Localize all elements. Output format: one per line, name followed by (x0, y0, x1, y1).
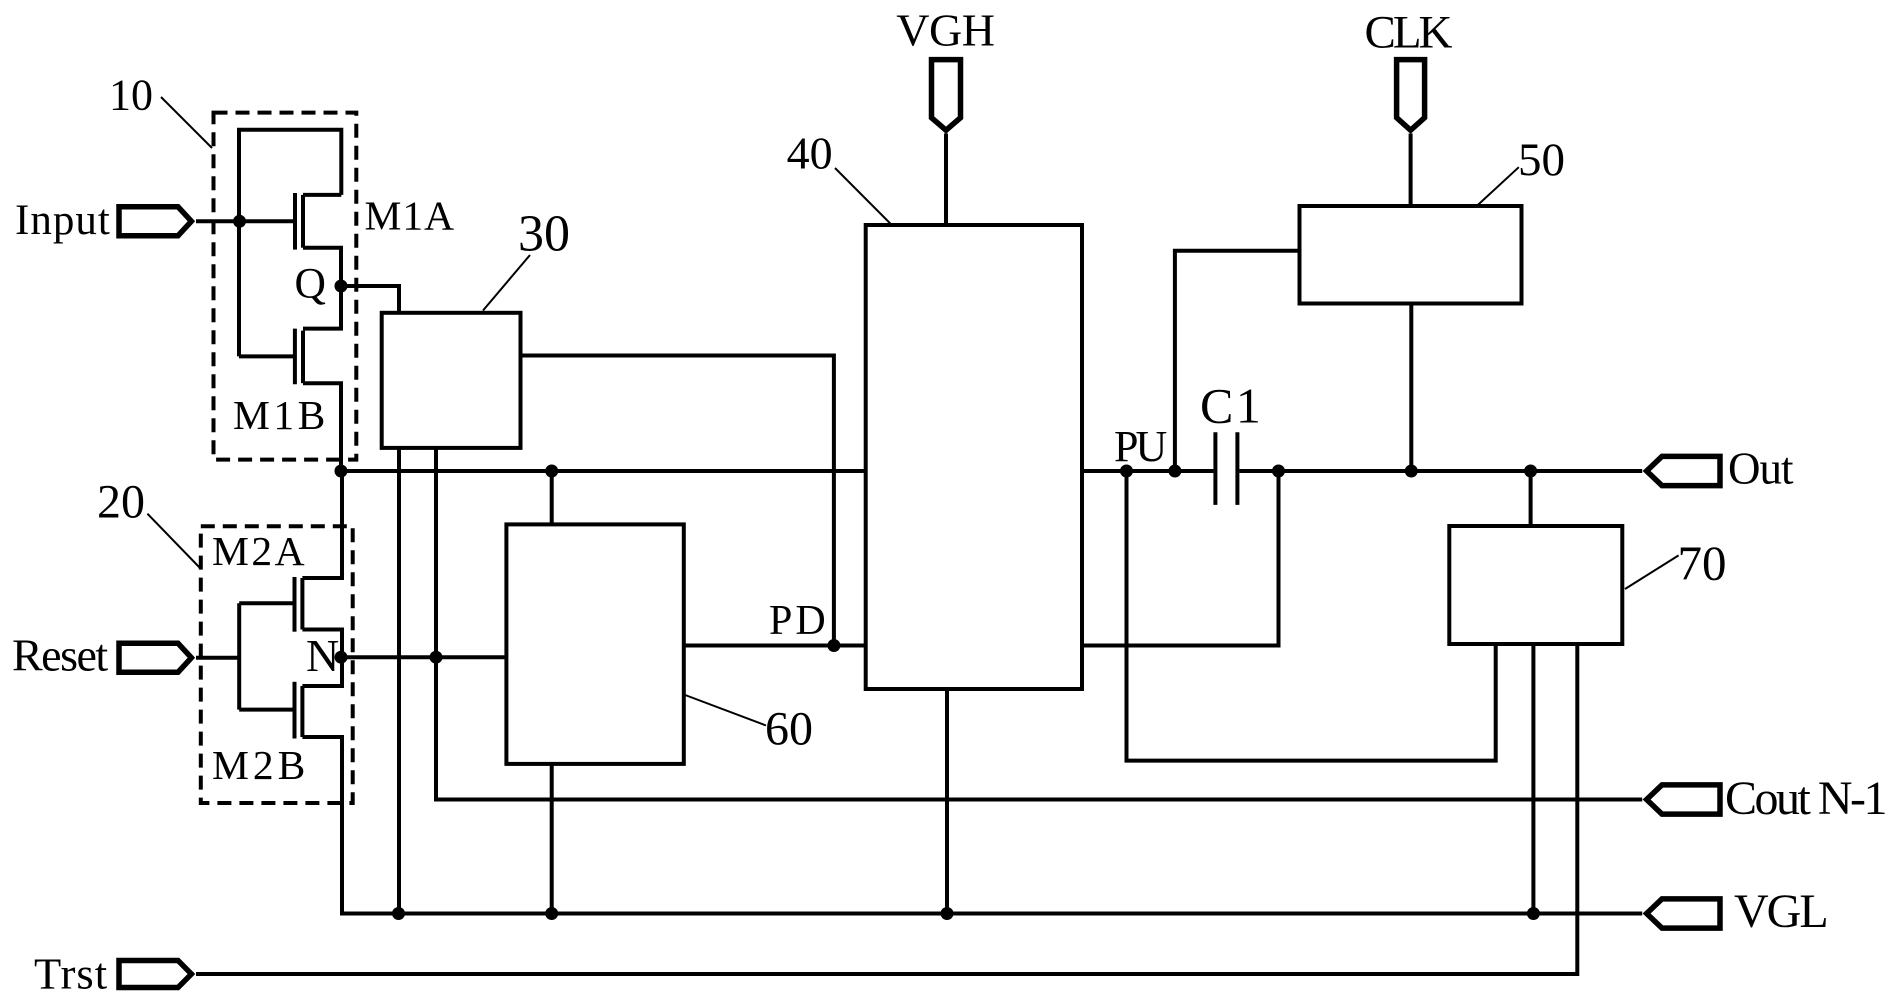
wire box50 left pin down to out line (1175, 251, 1300, 471)
svg-text:Out: Out (1728, 444, 1794, 494)
dashed box 20 (201, 526, 353, 803)
terminal Out (1647, 456, 1720, 485)
dashed box 10 (214, 113, 357, 460)
wire C1 bottom plate to box40 right edge (1082, 471, 1279, 646)
transistor M1A channel bar (301, 195, 305, 248)
wire M2A source to node N (302, 630, 342, 658)
svg-text:30: 30 (518, 206, 570, 263)
pointer line for 50 (1478, 167, 1519, 205)
wire box60 bottom pin to VGL (550, 764, 554, 914)
wire box20 left wire (237, 603, 241, 709)
wire box70 pin3 to Trst line (196, 644, 1577, 974)
svg-text:Cout N-1: Cout N-1 (1725, 772, 1886, 825)
svg-text:Input: Input (15, 197, 111, 244)
wire M2B drain to node N (302, 657, 342, 686)
wire M2A drain up to out line (302, 471, 342, 578)
svg-text:Trst: Trst (34, 949, 108, 999)
svg-text:N: N (306, 630, 339, 681)
wire box70 top pin (1529, 471, 1533, 526)
wire box30 output to PD (521, 356, 834, 646)
svg-text:40: 40 (787, 127, 833, 178)
transistor M2B gate bar (293, 682, 297, 739)
svg-text:PD: PD (769, 598, 829, 644)
node Q dot (335, 280, 348, 293)
node N dot (335, 651, 348, 664)
wire input line to M1A gate (196, 219, 295, 223)
svg-text:M1B: M1B (233, 392, 329, 438)
transistor M2A channel bar (300, 578, 304, 630)
block 30 (382, 313, 521, 448)
node PU dot (1120, 465, 1133, 478)
pointer line for 70 (1625, 555, 1679, 589)
wire box50 bottom pin (1409, 304, 1413, 472)
wire M2B gate line (239, 708, 294, 712)
svg-text:PU: PU (1114, 422, 1166, 471)
node dot x1411 (1405, 465, 1418, 478)
wire M2A gate line (239, 601, 294, 605)
out line left segment (341, 469, 866, 473)
out line right segment a (1082, 469, 1213, 473)
node dot x1530 (1524, 465, 1537, 478)
terminal Trst (119, 961, 191, 988)
node dot VGL x551 (545, 907, 558, 920)
wire M2B source down and VGL line (302, 737, 1642, 914)
terminal CLK (1397, 60, 1425, 131)
svg-text:60: 60 (765, 703, 813, 756)
terminal VGL (1647, 899, 1720, 928)
svg-text:CLK: CLK (1365, 7, 1453, 59)
svg-text:50: 50 (1518, 134, 1565, 186)
svg-text:M2A: M2A (212, 528, 307, 574)
svg-text:M2B: M2B (212, 742, 309, 788)
wire box30 pin2 down and Cout N-1 line (436, 448, 1642, 800)
terminal VGH (932, 60, 961, 131)
wire Q to box30 top (341, 286, 399, 313)
transistor M2B channel bar (300, 686, 304, 737)
pointer line for 60 (684, 695, 766, 726)
wire M1A source to node Q (303, 248, 341, 286)
pointer line for 20 (147, 514, 201, 569)
svg-text:VGL: VGL (1734, 885, 1827, 938)
svg-text:70: 70 (1678, 536, 1727, 591)
svg-text:C1: C1 (1200, 378, 1263, 434)
svg-text:VGH: VGH (896, 5, 994, 56)
svg-text:Reset: Reset (12, 630, 108, 681)
out line right segment b (1239, 469, 1642, 473)
terminal Reset (119, 643, 191, 672)
capacitor C1 right plate (1235, 432, 1239, 505)
block 70 (1449, 526, 1622, 644)
pointer line for 30 (483, 255, 530, 311)
transistor M2A gate bar (293, 577, 297, 632)
wire box70 pin2 to VGL (1531, 644, 1535, 914)
wire M1B drain to Q (303, 286, 341, 329)
node dot VGL x947 (941, 907, 954, 920)
node dot VGL x1533 (1527, 907, 1540, 920)
node dot x1174 (1168, 465, 1181, 478)
wire M1B source down to out line (303, 383, 341, 471)
transistor M1B gate bar (293, 329, 297, 385)
wire box10 left + top + M1A drain drop (239, 130, 341, 357)
node dot x1278 (1272, 465, 1285, 478)
wire box40 bottom pin to VGL (945, 689, 949, 914)
wire M1A drain horizontal (303, 193, 341, 197)
block 40 (866, 225, 1082, 689)
wire box30 pin1 down to VGL (397, 448, 401, 914)
svg-text:Q: Q (295, 260, 326, 308)
pointer line for 40 (835, 168, 892, 225)
node dot VGL x398 (392, 907, 405, 920)
block 60 (506, 524, 683, 764)
wire PD line box60 to box40 (684, 644, 866, 648)
wire reset line (196, 656, 239, 660)
pointer line for 10 (161, 97, 212, 148)
transistor M1A gate bar (293, 193, 297, 250)
terminal Cout N-1 (1647, 785, 1720, 814)
wire VGH to box40 (944, 134, 948, 226)
wire box60 top pin (550, 471, 554, 524)
node dot N line x436 (430, 651, 443, 664)
wire node N line to box60 (341, 655, 506, 659)
wire CLK to box50 (1409, 134, 1413, 207)
node dot input junction (233, 215, 246, 228)
node dot out line left end (335, 465, 348, 478)
node dot out line x551 (545, 465, 558, 478)
svg-text:20: 20 (97, 476, 145, 529)
wire M1B gate line (239, 354, 295, 358)
svg-text:10: 10 (109, 71, 153, 120)
node PD dot (827, 639, 840, 652)
svg-text:M1A: M1A (365, 192, 456, 238)
capacitor C1 left plate (1213, 432, 1217, 505)
terminal Input (119, 207, 191, 236)
wire PU down right to box70 pin1 (1127, 471, 1496, 761)
transistor M1B channel bar (301, 331, 305, 384)
block 50 (1300, 206, 1522, 304)
